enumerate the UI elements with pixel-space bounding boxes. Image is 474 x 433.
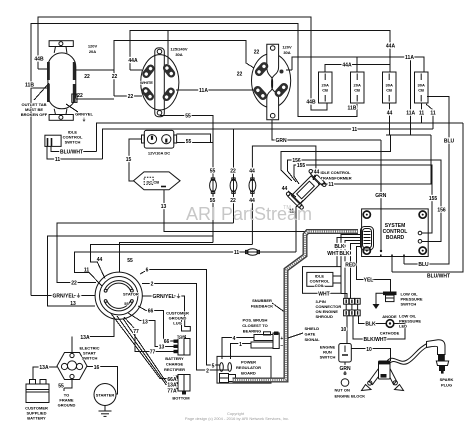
svg-text:CB: CB (418, 88, 424, 93)
wire 1 brush (231, 344, 252, 359)
shield cable band (233, 232, 359, 381)
svg-text:11: 11 (419, 111, 425, 117)
svg-text:REGULATOR: REGULATOR (236, 365, 261, 370)
svg-text:SWITCH: SWITCH (320, 355, 336, 360)
wire 77A diagonal (123, 319, 177, 391)
svg-text:SWITCH: SWITCH (401, 302, 417, 307)
wire 2 stator (142, 284, 229, 371)
wire 11B bus top (31, 24, 357, 296)
wire 10 run switch right (352, 349, 391, 361)
svg-text:55: 55 (124, 301, 129, 306)
svg-text:CATHODE: CATHODE (380, 331, 400, 336)
svg-text:2: 2 (206, 369, 209, 375)
svg-text:11: 11 (84, 268, 90, 274)
svg-text:POS. BRUSH: POS. BRUSH (243, 318, 268, 323)
wire BLK pin2 (341, 235, 361, 267)
svg-text:44B: 44B (34, 57, 44, 63)
receptacle J3 120V 30A twistlock (252, 44, 291, 120)
svg-text:−: − (280, 343, 283, 349)
svg-text:44: 44 (249, 169, 255, 175)
wire 22 bus (114, 41, 254, 97)
wire 44 transformer left (288, 191, 296, 197)
wire 156 (288, 160, 442, 241)
wire 11 stator (75, 252, 296, 286)
svg-text:ARI PartStream: ARI PartStream (186, 204, 312, 224)
wire outlet tab pointer (34, 83, 49, 100)
wire shield gate pointer (288, 333, 303, 338)
wire 13A battery to switch (33, 367, 57, 380)
wire 11B outlet stub (31, 87, 47, 89)
wire BLU-WHT riser (392, 123, 463, 272)
circuit breaker CB4 30A (415, 72, 429, 103)
svg-text:SIGNAL: SIGNAL (305, 337, 321, 342)
svg-text:11: 11 (55, 157, 61, 163)
svg-text:55: 55 (210, 169, 216, 175)
wire 22 outlet lower (76, 98, 114, 100)
wire 22 stator (57, 223, 234, 283)
svg-text:55: 55 (127, 258, 133, 264)
svg-text:WHITE: WHITE (140, 80, 153, 85)
wire 44 mid riser (252, 146, 316, 244)
svg-text:11: 11 (430, 111, 436, 117)
wire recep2 UR drop (167, 31, 169, 65)
wire 55 receptacle strap (160, 115, 213, 142)
wire 44B into outlet (38, 68, 47, 70)
receptacle J2 125/240V 30A twistlock (140, 48, 179, 117)
wire 11A recep3 stub (286, 69, 292, 71)
wire snubber pointer (272, 303, 286, 313)
switch S3 engine run (339, 344, 352, 363)
svg-text:SWITCH: SWITCH (65, 140, 81, 145)
idle control switch S1 (45, 135, 61, 146)
svg-text:6: 6 (146, 268, 149, 274)
svg-text:BATTERY: BATTERY (165, 356, 184, 361)
svg-text:22: 22 (112, 74, 118, 80)
svg-text:155: 155 (429, 196, 438, 202)
svg-text:GRN/YEL ⏚: GRN/YEL ⏚ (153, 293, 182, 300)
wire knot y135 (386, 134, 431, 136)
svg-text:CB: CB (322, 88, 328, 93)
svg-text:13: 13 (142, 320, 148, 326)
svg-text:77A: 77A (167, 389, 177, 395)
svg-text:13A: 13A (39, 365, 49, 371)
svg-text:155: 155 (297, 163, 306, 169)
connector inline 22 (230, 178, 237, 194)
wire coil stub upper (333, 275, 341, 277)
wire RED pin5 (351, 244, 361, 299)
coil L1 idle control enclosure (303, 267, 342, 294)
svg-text:SPARK: SPARK (440, 377, 454, 382)
svg-text:44: 44 (97, 257, 103, 263)
svg-text:22: 22 (128, 94, 134, 100)
wire grn-yel outlet pointer (66, 104, 78, 112)
wire 11 CB4 diag out (426, 104, 433, 129)
wire 6 stator (140, 270, 221, 366)
wire 44 CB3 out (389, 103, 391, 135)
connector 3-pin engine shroud row2 (344, 304, 361, 316)
svg-text:11B: 11B (348, 106, 357, 112)
wire 11A bus (292, 57, 424, 72)
svg-text:POWER: POWER (241, 360, 256, 365)
svg-text:5: 5 (212, 364, 215, 370)
svg-text:LUG: LUG (173, 321, 181, 326)
svg-text:11: 11 (328, 182, 334, 188)
svg-text:GRN: GRN (339, 366, 351, 372)
svg-text:SHIELD: SHIELD (305, 326, 320, 331)
wire 11A CB2 drop (356, 57, 358, 72)
wire GRN-YEL right to lug (142, 296, 184, 319)
svg-text:BATTERY: BATTERY (27, 416, 46, 421)
wire 77 stator (124, 317, 174, 352)
svg-text:BOARD: BOARD (241, 371, 256, 376)
svg-text:55: 55 (186, 139, 192, 145)
circuit breaker DC CB (134, 172, 181, 190)
svg-text:11A: 11A (405, 55, 414, 61)
svg-text:GATE: GATE (305, 332, 316, 337)
svg-text:15: 15 (126, 157, 132, 163)
svg-text:BLU: BLU (418, 262, 429, 268)
wire 44A CB1 link (325, 65, 390, 73)
svg-text:BOTTOM: BOTTOM (172, 396, 190, 401)
svg-text:Page design (c) 2004 - 2016 by: Page design (c) 2004 - 2016 by ARI Netwo… (185, 416, 289, 421)
wire 13A drop (81, 319, 114, 337)
svg-text:GRN/YEL ⏚: GRN/YEL ⏚ (53, 293, 82, 300)
svg-text:TRANSFORMER: TRANSFORMER (321, 176, 352, 181)
svg-text:RECTIFIER: RECTIFIER (164, 367, 185, 372)
stator M1 (95, 272, 142, 319)
svg-text:20A: 20A (89, 49, 96, 54)
ground nut on engine block (341, 371, 349, 387)
wire GRN bus (272, 120, 381, 140)
wire BLU board pin2 (403, 257, 405, 265)
svg-text:44: 44 (314, 170, 320, 176)
svg-text:13: 13 (161, 204, 167, 210)
wire 13A hex top (71, 337, 73, 353)
svg-text:+: + (280, 336, 283, 342)
connector battery charge rectifier top (174, 335, 191, 355)
wire GRN run switch bottom (344, 362, 346, 375)
svg-text:FEEDBACK: FEEDBACK (251, 304, 273, 309)
svg-text:WHT: WHT (318, 291, 329, 297)
wire BLK anode (359, 316, 387, 324)
svg-text:22: 22 (84, 74, 90, 80)
svg-text:BROKEN OFF: BROKEN OFF (21, 112, 48, 117)
svg-text:77: 77 (133, 329, 139, 335)
svg-text:GROUND: GROUND (58, 403, 76, 408)
lug customer ground (182, 319, 191, 331)
svg-text:22: 22 (237, 72, 243, 78)
wire 44 transformer right (313, 174, 317, 180)
svg-text:44A: 44A (342, 63, 352, 69)
board U1 system control (362, 209, 429, 257)
wire 44A bus (130, 31, 390, 73)
svg-text:SWITCH: SWITCH (82, 356, 98, 361)
svg-text:COIL: COIL (315, 283, 325, 288)
wire BLU riser (404, 97, 449, 265)
wire 16 to starter (87, 367, 118, 395)
svg-text:44: 44 (387, 111, 393, 117)
coil L1 idle control box (307, 272, 333, 286)
connector inline 44 (249, 178, 256, 194)
svg-text:30A: 30A (283, 50, 290, 55)
svg-text:13A: 13A (80, 335, 90, 341)
svg-text:66: 66 (148, 309, 154, 315)
coil T2 ignition (362, 361, 404, 391)
outlet J1 duplex 120V 20A (47, 41, 77, 121)
connector 3-pin engine shroud row1 (344, 298, 361, 304)
svg-text:22: 22 (254, 50, 260, 56)
svg-text:BLU/WHT: BLU/WHT (60, 150, 83, 156)
svg-text:44B: 44B (306, 100, 316, 106)
wire YEL (357, 247, 391, 293)
brush assembly (251, 332, 279, 349)
spark plug P1 (427, 340, 449, 374)
svg-text:GRN: GRN (375, 193, 387, 199)
svg-text:⏚: ⏚ (82, 116, 86, 122)
circuit breaker CB3 30A (383, 72, 397, 103)
svg-text:77: 77 (150, 350, 156, 356)
wire 13 dc out (164, 190, 306, 232)
wire 11 transformer drop (296, 198, 306, 252)
svg-text:PLUG: PLUG (441, 383, 452, 388)
svg-text:DC CB: DC CB (147, 180, 160, 185)
svg-text:55: 55 (58, 384, 64, 390)
wire 13 stator left (48, 236, 213, 306)
transformer T1 idle control (285, 169, 326, 210)
wire 55 stator riser (120, 243, 213, 273)
circuit breaker CB1 20A (319, 72, 333, 103)
svg-text:10: 10 (366, 347, 372, 353)
wire coil stub lower (333, 282, 341, 284)
svg-text:22: 22 (71, 281, 77, 287)
wire BLU-WHT bus y123 (96, 123, 463, 152)
svg-text:44A: 44A (386, 44, 396, 50)
svg-text:125/240V: 125/240V (170, 47, 187, 52)
wire 55 frame ground (64, 380, 72, 392)
svg-text:IDLE CONTROL: IDLE CONTROL (321, 170, 352, 175)
svg-text:11A: 11A (406, 111, 415, 117)
svg-text:ANODE: ANODE (382, 314, 397, 319)
svg-text:13: 13 (70, 301, 76, 307)
svg-text:44A: 44A (128, 58, 138, 64)
motor starter (94, 384, 116, 417)
connector inline 11 (246, 249, 260, 255)
wire WHT pin3 (337, 238, 361, 267)
wire WHT coil bottom (341, 293, 347, 298)
wire 22 outlet upper (76, 69, 114, 71)
svg-text:30A: 30A (175, 52, 182, 57)
svg-text:SHROUD: SHROUD (316, 314, 333, 319)
svg-text:2: 2 (151, 282, 154, 288)
svg-text:11: 11 (234, 250, 240, 256)
wire GRN board drop (380, 140, 382, 251)
svg-text:BLK: BLK (339, 251, 350, 257)
wire 155 (294, 165, 432, 233)
svg-text:BLU/WHT: BLU/WHT (427, 274, 450, 280)
battery B1 (26, 380, 49, 403)
svg-text:ENGINE BLOCK: ENGINE BLOCK (335, 394, 366, 399)
svg-text:LED: LED (399, 324, 407, 329)
svg-text:RED: RED (345, 263, 356, 269)
wire 11 bus y129 (102, 129, 433, 159)
switch S4 electric start hexagon (57, 353, 87, 380)
svg-text:1: 1 (239, 342, 242, 348)
wire idle switch 11 (47, 147, 102, 160)
switch S2 low oil pressure (373, 292, 397, 310)
svg-text:GRN: GRN (275, 138, 287, 144)
wire idle switch BLU-WHT (51, 147, 96, 152)
svg-text:13: 13 (159, 345, 165, 351)
wire 11A down (410, 57, 412, 135)
svg-text:120V: 120V (282, 45, 292, 50)
svg-text:16: 16 (94, 365, 100, 371)
svg-text:120V: 120V (88, 44, 98, 49)
wire 11 transformer right (318, 135, 431, 184)
svg-text:NUT ON: NUT ON (335, 388, 350, 393)
wire GRN-YEL left (31, 295, 96, 297)
svg-text:CB: CB (354, 88, 360, 93)
svg-text:11A: 11A (199, 88, 208, 94)
board U2 power regulator (217, 356, 271, 383)
wire BLK-WHT cathode (353, 316, 405, 339)
wire 55 dc upper jog (177, 134, 211, 143)
wire 44A recep2 UL stub (130, 69, 142, 71)
svg-text:11B: 11B (25, 83, 34, 89)
wire 66A diagonal (111, 314, 177, 379)
wire 55 dc (177, 143, 213, 243)
wire 22 recep2 LL stub (114, 95, 142, 97)
wire 11A receptacle link (176, 89, 255, 91)
svg-text:STATOR: STATOR (123, 292, 139, 297)
connector 5-pin board edge (361, 227, 374, 251)
receptacle J4 12V 10A DC (142, 130, 177, 148)
connector inline 55 (210, 178, 217, 194)
svg-text:10: 10 (341, 327, 347, 333)
svg-text:YEL: YEL (364, 278, 374, 284)
wire 155 left link (281, 135, 391, 181)
svg-text:22: 22 (77, 93, 83, 99)
svg-text:BEARING: BEARING (243, 329, 261, 334)
svg-text:22: 22 (230, 169, 236, 175)
wire 13 stator to rectifier (128, 313, 174, 347)
svg-text:55: 55 (185, 114, 191, 120)
svg-text:STARTER: STARTER (96, 393, 115, 398)
svg-text:12V/10A DC: 12V/10A DC (148, 151, 170, 156)
svg-text:WHT: WHT (327, 251, 338, 257)
svg-text:BLK: BLK (365, 322, 376, 328)
connector battery charge rectifier bottom (174, 375, 191, 395)
wire 44 stator (91, 244, 253, 278)
svg-text:CLOSEST TO: CLOSEST TO (242, 323, 267, 328)
svg-text:BLK: BLK (334, 244, 345, 250)
svg-text:156: 156 (437, 208, 446, 214)
svg-text:44: 44 (282, 186, 288, 192)
svg-text:BLU: BLU (444, 139, 455, 145)
circuit breaker CB2 20A (351, 72, 365, 103)
svg-text:GRN/YEL: GRN/YEL (75, 112, 93, 117)
svg-text:TM: TM (283, 205, 291, 211)
wire 22 mid riser (233, 129, 235, 223)
wire 156 diag (288, 171, 297, 182)
LED low oil pressure (386, 320, 394, 328)
svg-text:11: 11 (352, 127, 358, 133)
wire 11 CB4 out (421, 103, 423, 123)
wire spark plug lead (387, 344, 427, 362)
wire 10 run switch top (346, 316, 348, 344)
wire 44B bus top (38, 17, 327, 110)
wire 66 stator (138, 306, 174, 341)
svg-text:SNUBBER: SNUBBER (252, 298, 272, 303)
svg-text:BLK/WHT: BLK/WHT (363, 337, 386, 343)
svg-text:CHARGE: CHARGE (166, 362, 184, 367)
wire 155 diag (294, 176, 299, 184)
wire BLU board pin (391, 257, 393, 273)
svg-text:BOARD: BOARD (386, 235, 405, 241)
wire BLK pin4 (345, 241, 361, 299)
svg-text:TOP: TOP (177, 334, 185, 339)
svg-text:4: 4 (233, 336, 236, 342)
wire 13A diagonal (117, 316, 177, 385)
wire 15 dc (129, 139, 141, 181)
svg-text:66: 66 (164, 339, 170, 345)
wire 4 brush (222, 338, 254, 359)
svg-text:CB: CB (386, 88, 392, 93)
